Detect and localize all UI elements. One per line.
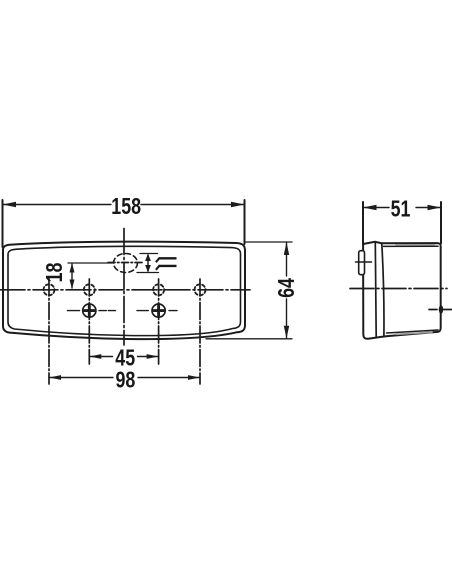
side view lens inner vertical line (374, 242, 377, 337)
dimension 158 arrow left (3, 202, 17, 207)
hole 3 vertical center line (158, 279, 160, 364)
dimension 51 extension right (440, 202, 442, 244)
horizontal hole-row center line (0, 289, 250, 291)
dimension 64 line (286, 243, 288, 338)
dimension 45 line (89, 356, 158, 358)
side view top inner double line (384, 245, 439, 247)
dimension 158 line (3, 204, 245, 206)
side view bottom inner double line (387, 330, 439, 333)
dimension 64 extension bottom (206, 338, 292, 340)
side tab center line (356, 261, 372, 263)
dimension 18 top tick (68, 262, 112, 264)
slot horizontal center line (108, 262, 143, 264)
dimension 18 arrow line (71, 264, 73, 288)
svg-text:64: 64 (274, 278, 300, 298)
hole 4 vertical center line (199, 279, 201, 384)
dimension 158 extension line left (2, 200, 4, 247)
dimension 51 line (363, 207, 441, 209)
vertical center line of front view (123, 229, 125, 346)
mounting hole 3 (153, 284, 164, 295)
dimension 11 arrow line (147, 255, 149, 271)
svg-text:158: 158 (111, 194, 141, 220)
screw 1 (68, 304, 116, 317)
dimension 98 arrows (49, 375, 61, 380)
mounting hole 4 (195, 284, 206, 295)
side view outer outline (363, 242, 441, 339)
side view top shading (396, 244, 434, 246)
screw 2 (137, 304, 177, 317)
side view horizontal center line (350, 288, 447, 290)
hole 1 vertical center line (48, 279, 50, 384)
label 11 (rotated, drawn) (156, 258, 177, 270)
svg-text:18: 18 (42, 263, 68, 283)
lamp front view inner outline (8, 246, 241, 335)
side tab (359, 251, 365, 275)
top slot (dashed ellipse) (114, 254, 138, 273)
dimension 45 arrows (89, 354, 101, 359)
hole 2 vertical center line (88, 279, 90, 364)
rear stud center line (429, 309, 452, 311)
svg-text:98: 98 (115, 367, 135, 393)
mounting hole 2 (84, 284, 95, 295)
dimension 98 line (49, 377, 200, 379)
dimension 51 extension left (362, 202, 364, 244)
dimension 11 bottom tick (137, 272, 159, 274)
side view bottom shading (396, 332, 432, 334)
rear stud bump (439, 305, 443, 314)
mounting hole 1 (44, 284, 55, 295)
dimension 11 top tick (140, 253, 158, 255)
svg-text:51: 51 (391, 196, 411, 222)
side view body front vertical line (382, 244, 384, 335)
dimension 64 arrows (284, 242, 289, 255)
dimension 64 extension top (246, 241, 292, 243)
dimension 51 arrows (363, 205, 377, 210)
lamp front view outer outline (3, 242, 245, 339)
dimension 158 extension line right (244, 200, 246, 244)
dimension 158 arrow right (231, 202, 245, 207)
